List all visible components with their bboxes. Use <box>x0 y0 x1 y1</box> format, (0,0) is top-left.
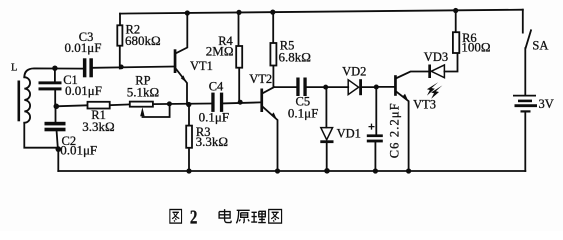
svg-text:C4: C4 <box>209 79 224 93</box>
svg-text:2MΩ: 2MΩ <box>206 44 234 59</box>
svg-text:3.3kΩ: 3.3kΩ <box>82 119 114 134</box>
svg-text:L: L <box>11 63 17 74</box>
svg-text:VD3: VD3 <box>424 50 448 64</box>
svg-text:680kΩ: 680kΩ <box>125 33 161 48</box>
svg-text:VT2: VT2 <box>249 72 272 86</box>
svg-text:SA: SA <box>532 39 548 53</box>
svg-text:100Ω: 100Ω <box>461 40 490 55</box>
svg-text:5.1kΩ: 5.1kΩ <box>127 85 159 100</box>
svg-text:0.01μF: 0.01μF <box>65 83 102 98</box>
svg-text:0.01μF: 0.01μF <box>65 40 102 55</box>
svg-text:3V: 3V <box>539 97 554 111</box>
svg-text:0.1μF: 0.1μF <box>288 105 318 120</box>
svg-text:0.1μF: 0.1μF <box>199 109 229 124</box>
svg-text:VT3: VT3 <box>413 97 436 111</box>
svg-text:VT1: VT1 <box>190 59 213 73</box>
svg-text:0.01μF: 0.01μF <box>60 142 97 157</box>
svg-text:6.8kΩ: 6.8kΩ <box>279 49 311 64</box>
svg-text:3.3kΩ: 3.3kΩ <box>196 134 228 149</box>
svg-text:VD2: VD2 <box>342 65 366 79</box>
svg-text:2: 2 <box>190 205 198 228</box>
svg-text:C6 2.2μF: C6 2.2μF <box>387 103 401 158</box>
svg-text:VD1: VD1 <box>337 127 361 141</box>
